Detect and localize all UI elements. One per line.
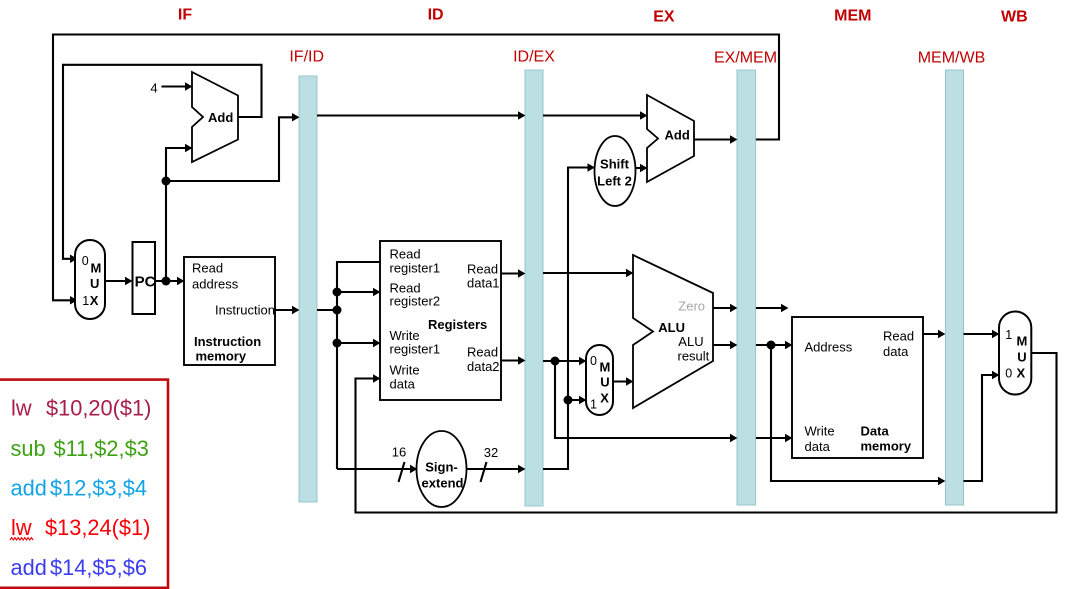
wire EX/MEM to data memory address <box>756 344 791 346</box>
wire to write register1 <box>337 342 379 344</box>
svg-text:$11,$2,$3: $11,$2,$3 <box>54 436 149 461</box>
svg-text:data1: data1 <box>467 276 500 291</box>
wire ALU result to EX/MEM <box>713 344 736 346</box>
svg-text:0: 0 <box>82 254 89 268</box>
pipeline register IF/ID bar <box>299 76 317 502</box>
shift left 2 ellipse <box>595 136 636 206</box>
junction dot PC branch <box>162 177 171 186</box>
svg-text:M: M <box>1017 334 1028 349</box>
svg-text:Read: Read <box>390 247 421 262</box>
instruction add $14,$5,$6 <box>11 555 147 580</box>
junction dot ALU result <box>767 341 776 350</box>
instruction add $12,$3,$4 <box>11 475 147 500</box>
junction dot instruction tee <box>333 306 342 315</box>
svg-text:memory: memory <box>196 349 247 364</box>
wire shift left 2 to EX Add <box>636 167 647 169</box>
pipeline register MEM/WB bar <box>946 70 964 505</box>
instruction sub $11,$2,$3 <box>11 436 149 461</box>
wire ID/EX to EX mux input 0 <box>543 360 585 362</box>
svg-text:Sign-: Sign- <box>425 460 458 475</box>
svg-text:Add: Add <box>665 128 690 143</box>
svg-text:IF/ID: IF/ID <box>289 49 324 66</box>
junction dot write register1 <box>333 339 342 348</box>
mux M3 write-back <box>999 312 1031 395</box>
wire sign-extend to ID/EX <box>467 468 525 470</box>
svg-text:16: 16 <box>392 445 406 460</box>
bus width slash 16 <box>399 462 405 482</box>
wire read data2 bypass to EX/MEM <box>555 361 736 438</box>
svg-text:X: X <box>1017 366 1026 381</box>
wire IF/ID instruction bus <box>317 262 380 310</box>
svg-text:U: U <box>600 374 609 389</box>
svg-text:Left 2: Left 2 <box>597 174 632 189</box>
svg-text:ALU: ALU <box>678 334 703 349</box>
bus width slash 32 <box>481 462 487 482</box>
instruction lw $13,24($1) <box>10 515 150 540</box>
svg-text:X: X <box>600 391 609 406</box>
mux M2 ALU-source <box>586 345 613 415</box>
wire ID/EX to EX Add upper input <box>543 114 646 116</box>
svg-text:ID: ID <box>428 7 444 24</box>
svg-text:result: result <box>678 348 710 363</box>
pipeline register EX/MEM bar <box>737 70 756 505</box>
svg-text:ID/EX: ID/EX <box>513 49 555 66</box>
svg-text:U: U <box>90 276 99 291</box>
svg-text:memory: memory <box>861 439 912 454</box>
svg-text:EX: EX <box>653 9 675 26</box>
ALU <box>633 255 713 408</box>
wire PC+4 loop Add output to PC mux input 0 <box>63 65 262 259</box>
adder Add IF stage <box>192 72 238 162</box>
wire immediate to EX mux input 1 <box>568 399 585 401</box>
svg-text:EX/MEM: EX/MEM <box>714 50 777 67</box>
svg-text:ALU: ALU <box>658 320 685 335</box>
junction dot PC out <box>162 277 171 286</box>
svg-text:sub: sub <box>11 436 46 461</box>
wire EX/MEM to data memory write data <box>756 437 791 439</box>
svg-text:Shift: Shift <box>600 157 630 172</box>
wire constant 4 to Add top input <box>162 85 192 87</box>
svg-text:register1: register1 <box>390 261 441 276</box>
wire to sign-extend <box>337 468 416 470</box>
svg-text:0: 0 <box>1005 367 1012 381</box>
wire instruction vertical <box>336 310 338 469</box>
svg-text:address: address <box>192 277 239 292</box>
wire branch-target loop EX/MEM to PC mux input 1 <box>53 35 779 301</box>
svg-text:U: U <box>1017 350 1026 365</box>
svg-text:MEM: MEM <box>834 8 871 25</box>
wire data memory read data to MEM/WB <box>923 333 944 335</box>
svg-text:Zero: Zero <box>678 299 705 314</box>
svg-text:0: 0 <box>590 354 597 368</box>
svg-text:add: add <box>11 475 47 500</box>
wire mux to PC <box>103 280 131 282</box>
svg-text:M: M <box>600 359 611 374</box>
svg-text:add: add <box>11 555 47 580</box>
svg-text:$13,24($1): $13,24($1) <box>45 515 150 540</box>
wire EX mux to ALU bottom input <box>614 380 632 382</box>
wire PC value to IF/ID <box>166 117 298 181</box>
svg-text:32: 32 <box>484 445 498 460</box>
svg-text:extend: extend <box>422 476 464 491</box>
instruction list box <box>0 380 168 588</box>
wire ALU result bypass to MEM/WB <box>771 345 944 481</box>
junction dot immediate <box>564 396 573 405</box>
wire write-back loop WB mux to registers write data <box>356 353 1057 513</box>
svg-text:4: 4 <box>150 81 157 96</box>
wire EX Add to EX/MEM <box>694 138 736 140</box>
svg-text:1: 1 <box>590 398 597 412</box>
wire to read register2 <box>337 291 379 293</box>
svg-text:Add: Add <box>208 110 233 125</box>
register PC <box>133 242 156 314</box>
wire ALU zero to EX/MEM <box>713 307 736 309</box>
mux M1 PC-source <box>75 240 105 319</box>
junction dot read register2 <box>333 288 342 297</box>
pipeline register ID/EX bar <box>525 70 543 506</box>
svg-text:Read: Read <box>192 261 223 276</box>
svg-text:Write: Write <box>805 424 835 439</box>
svg-text:register2: register2 <box>390 294 441 309</box>
svg-text:Write: Write <box>390 363 420 378</box>
svg-text:Read: Read <box>467 262 498 277</box>
svg-text:Read: Read <box>883 329 914 344</box>
wire read data2 to ID/EX <box>501 359 524 361</box>
instruction memory box <box>184 257 275 365</box>
wire IF/ID to ID/EX pc value <box>317 114 524 116</box>
svg-text:data: data <box>805 439 831 454</box>
svg-text:Data: Data <box>861 424 890 439</box>
wire PC up to Add lower input <box>166 148 191 281</box>
wire immediate to shift left 2 <box>543 168 594 470</box>
svg-text:Read: Read <box>467 345 498 360</box>
svg-text:data: data <box>883 344 909 359</box>
wire ID/EX to ALU top input <box>543 272 632 274</box>
instruction lw $10,20($1) <box>11 396 151 421</box>
svg-text:IF: IF <box>178 7 192 24</box>
wire PC to instruction memory read address <box>154 280 183 282</box>
sign-extend ellipse <box>417 431 467 507</box>
svg-text:lw: lw <box>11 396 32 421</box>
svg-text:PC: PC <box>135 274 156 291</box>
svg-text:Registers: Registers <box>428 317 487 332</box>
svg-text:Instruction: Instruction <box>215 303 275 318</box>
svg-text:$14,$5,$6: $14,$5,$6 <box>50 555 147 580</box>
wire zero dangling arrow <box>756 307 787 309</box>
wire MEM/WB to WB mux input 1 <box>964 333 999 335</box>
svg-text:Instruction: Instruction <box>194 334 261 349</box>
svg-text:Address: Address <box>805 340 853 355</box>
svg-text:data2: data2 <box>467 359 500 374</box>
svg-text:$12,$3,$4: $12,$3,$4 <box>50 475 147 500</box>
wire instruction memory to IF/ID <box>275 309 298 311</box>
svg-text:data: data <box>390 377 416 392</box>
svg-text:register1: register1 <box>390 342 441 357</box>
svg-text:lw: lw <box>11 515 32 540</box>
adder Add EX stage <box>647 95 694 182</box>
svg-text:$10,20($1): $10,20($1) <box>46 396 151 421</box>
svg-text:MEM/WB: MEM/WB <box>918 50 986 67</box>
svg-text:X: X <box>90 293 99 308</box>
svg-text:1: 1 <box>82 294 89 308</box>
svg-text:M: M <box>91 261 102 276</box>
svg-text:WB: WB <box>1001 9 1028 26</box>
data memory box <box>792 317 923 458</box>
wire MEM/WB to WB mux input 0 <box>964 375 999 481</box>
wire read data1 to ID/EX <box>501 272 524 274</box>
registers box <box>380 241 501 400</box>
svg-text:1: 1 <box>1005 328 1012 342</box>
junction dot read data2 <box>551 357 560 366</box>
